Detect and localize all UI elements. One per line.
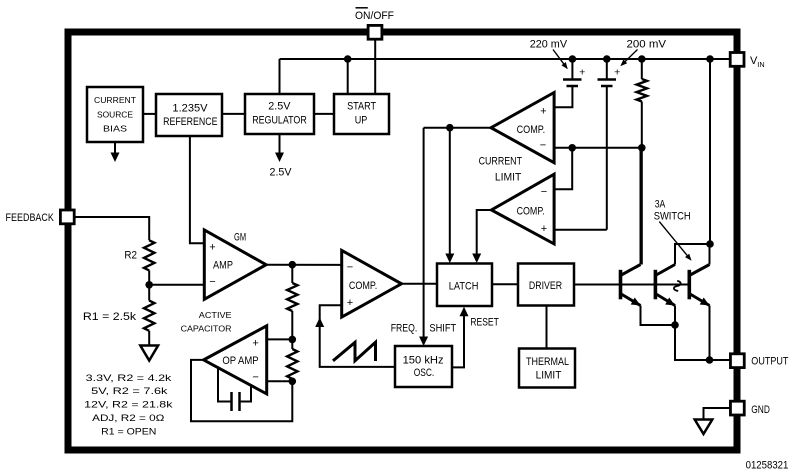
label OUTPUT [751, 355, 788, 367]
op-amp COMP current limit upper [491, 93, 554, 163]
transistor Q1 emitter [620, 293, 641, 306]
wire chain mid [291, 311, 293, 339]
wire minus to comp2 minus [554, 148, 572, 190]
wire gnd pin [704, 408, 731, 420]
block START UP [334, 94, 389, 134]
svg-text:1.235V: 1.235V [172, 103, 208, 115]
svg-text:REGULATOR: REGULATOR [252, 114, 307, 126]
label SHIFT [429, 323, 456, 335]
pointer arrow 200mV [620, 50, 637, 67]
wire node to gm- [149, 284, 204, 286]
wire reference to gm+ [190, 136, 204, 243]
label ACTIVE [199, 310, 232, 320]
svg-text:SOURCE: SOURCE [97, 109, 133, 119]
svg-text:12V, R2 = 21.8k: 12V, R2 = 21.8k [84, 399, 173, 410]
comp plus [347, 297, 353, 309]
capacitor comp left leg [218, 369, 232, 402]
note R2 values line5 [101, 426, 156, 437]
svg-text:COMP.: COMP. [517, 206, 545, 218]
svg-text:01258321: 01258321 [746, 459, 789, 471]
comp minus [347, 262, 353, 274]
op-amp COMP main [342, 250, 402, 317]
transistor Q1 collector [620, 148, 641, 276]
capacitor 220mV [563, 59, 582, 86]
svg-text:+: + [579, 67, 585, 79]
svg-text:150 kHz: 150 kHz [403, 354, 444, 366]
resistor chain lower [287, 349, 297, 379]
svg-text:START: START [347, 101, 376, 113]
transistor Q2 collector [654, 244, 710, 276]
resistor R2 [144, 240, 154, 270]
svg-text:200 mV: 200 mV [627, 39, 667, 51]
node gm output [289, 261, 297, 269]
svg-text:+: + [252, 337, 258, 349]
transistor Q2 emitter [654, 293, 675, 306]
svg-text:R2: R2 [124, 250, 137, 262]
note R2 values line1 [86, 373, 172, 384]
svg-text:+: + [540, 105, 546, 117]
wire output net [675, 325, 731, 360]
svg-text:−: − [540, 139, 546, 151]
svg-text:+: + [209, 241, 215, 253]
wire regulator top drop [279, 59, 281, 95]
svg-text:ACTIVE: ACTIVE [199, 310, 232, 320]
note R2 values line3 [84, 399, 173, 410]
svg-text:5V, R2 = 7.6k: 5V, R2 = 7.6k [91, 386, 168, 397]
comp1 minus [540, 139, 546, 151]
wire cap200 down [606, 86, 608, 230]
svg-text:ON/OFF: ON/OFF [355, 10, 394, 22]
block LATCH [437, 264, 492, 307]
label R2 [124, 250, 137, 262]
svg-text:OUTPUT: OUTPUT [751, 355, 788, 367]
svg-text:REFERENCE: REFERENCE [163, 116, 217, 128]
svg-text:SWITCH: SWITCH [654, 210, 691, 222]
svg-text:RESET: RESET [470, 317, 499, 329]
wire Q3 emitter down [709, 306, 711, 361]
wire driver to bases [574, 284, 689, 286]
wire comp2 to latch [477, 210, 492, 254]
pin OUTPUT [730, 354, 744, 368]
svg-text:220 mV: 220 mV [530, 39, 568, 51]
comp2 minus [541, 186, 547, 198]
arrow regulator 2.5V down [275, 153, 284, 163]
wire comp1 to latch [449, 128, 451, 254]
wire feedback to R2 [75, 217, 150, 240]
svg-text:LIMIT: LIMIT [536, 370, 562, 382]
wire resistor to minus line [641, 102, 643, 148]
node cap200 rail [603, 55, 611, 63]
capacitor comp right leg [240, 387, 252, 402]
svg-text:2.5V: 2.5V [270, 167, 293, 179]
block DRIVER [518, 264, 574, 306]
svg-text:3.3V, R2 = 4.2k: 3.3V, R2 = 4.2k [86, 373, 172, 384]
svg-text:R1 = 2.5k: R1 = 2.5k [83, 311, 137, 323]
label COMP main [349, 280, 377, 292]
svg-text:FEEDBACK: FEEDBACK [6, 212, 55, 224]
wire regulator-startup [314, 113, 334, 115]
opamp minus [252, 371, 258, 383]
svg-text:−: − [541, 186, 547, 198]
wire node to opamp- [267, 380, 293, 382]
svg-text:IN: IN [757, 60, 764, 69]
block 2.5V REGULATOR [245, 94, 314, 134]
wire comp1 minus line [554, 147, 642, 149]
pin GND [730, 401, 744, 415]
arrow into latch B [472, 254, 481, 264]
ground near GND pin [695, 420, 713, 435]
node opamp minus [289, 378, 297, 386]
node opamp plus [289, 336, 297, 344]
svg-text:+: + [347, 297, 353, 309]
resistor chain upper [287, 283, 297, 311]
svg-text:−: − [347, 262, 353, 274]
label COMP1 [517, 124, 546, 136]
svg-text:R1 = OPEN: R1 = OPEN [101, 426, 156, 437]
opamp plus [252, 337, 258, 349]
svg-text:3A: 3A [655, 199, 666, 211]
pin ON/OFF [368, 25, 382, 39]
label 2.5V output [270, 167, 293, 179]
label RESET [470, 317, 499, 329]
svg-text:LATCH: LATCH [449, 280, 479, 292]
svg-text:−: − [209, 276, 215, 288]
wire gm node down [291, 265, 293, 283]
transistor Q1 base bar [619, 270, 623, 300]
wire on/off drop [374, 39, 376, 95]
overline ON [356, 7, 368, 9]
svg-text:GND: GND [751, 404, 770, 416]
note R2 values line2 [91, 386, 168, 397]
svg-text:UP: UP [355, 114, 368, 126]
svg-text:ADJ, R2 = 0Ω: ADJ, R2 = 0Ω [92, 413, 164, 424]
wire gm output [266, 264, 342, 266]
label AMP [213, 260, 233, 272]
label FREQ. [391, 323, 418, 335]
node resistor rail [638, 55, 646, 63]
node collector junction [706, 240, 714, 248]
wire R1 to ground [148, 331, 150, 346]
svg-text:−: − [252, 371, 258, 383]
capacitor 200mV [598, 59, 617, 86]
label COMP2 [517, 206, 545, 218]
transistor Q2 base bar [654, 270, 658, 300]
transistor Q3 collector [688, 244, 709, 276]
wire resistor top [641, 59, 643, 79]
wire startup drop A [347, 59, 349, 95]
node cap220 rail [569, 55, 577, 63]
ground under R1 [140, 346, 158, 361]
label GND [751, 404, 770, 416]
wire collector to rail [709, 59, 711, 244]
sawtooth waveform [333, 342, 376, 361]
op-amp GM AMP [204, 230, 266, 299]
label GM [234, 231, 246, 243]
wire freq shift vertical [423, 128, 425, 337]
svg-text:DRIVER: DRIVER [529, 280, 562, 292]
op-amp COMP current limit lower [491, 174, 554, 244]
wire latch-driver [492, 283, 518, 285]
label 200 mV [627, 39, 667, 51]
label 3A [655, 199, 666, 211]
svg-text:OSC.: OSC. [414, 367, 435, 379]
block CURRENT SOURCE BIAS [87, 87, 143, 142]
label R1 = 2.5k [83, 311, 137, 323]
svg-text:BIAS: BIAS [103, 124, 128, 134]
arrow into osc [419, 337, 428, 347]
wire bias-reference [143, 113, 156, 115]
pin VIN [730, 53, 744, 67]
wire oscillator to comp+ [320, 305, 395, 367]
svg-text:LIMIT: LIMIT [495, 172, 522, 184]
svg-text:COMP.: COMP. [517, 124, 546, 136]
arrow reset up [460, 307, 469, 317]
svg-text:OP AMP: OP AMP [222, 355, 258, 367]
wire opamp feedback loop [191, 360, 292, 421]
svg-text:SHIFT: SHIFT [429, 323, 456, 335]
label LIMIT limit [495, 172, 522, 184]
node output A [706, 356, 714, 364]
transistor Q3 base bar [687, 270, 691, 300]
node comp1 output [446, 124, 454, 132]
pointer arrow 220mV [553, 50, 568, 70]
IC outer border [68, 32, 737, 450]
label 220 mV [530, 39, 568, 51]
wire comp1 output bus [424, 127, 491, 129]
gm plus [209, 241, 215, 253]
label ON/OFF [355, 10, 394, 22]
resistor sense [637, 79, 647, 102]
arrow osc feedback up [315, 318, 324, 328]
pointer arrow 3A switch [659, 222, 691, 261]
wire regulator 2.5V stub [279, 134, 281, 154]
comp1 plus [540, 105, 546, 117]
wire node to R1 [148, 285, 150, 301]
op-amp OP AMP [204, 326, 267, 394]
wire driver-thermal [546, 306, 548, 349]
wire Vin rail [280, 58, 732, 60]
capacitor comp plates [232, 392, 240, 411]
arrow into latch A [445, 254, 454, 264]
wire minus line to T1 collector [641, 148, 643, 265]
transistor Q3 emitter [688, 293, 709, 306]
block 1.235V REFERENCE [156, 94, 222, 136]
base resistor squiggle [674, 281, 681, 291]
node minus line B [638, 144, 646, 152]
wire bias ground stub [114, 142, 116, 154]
node minus line A [568, 144, 576, 152]
wire reference-regulator [222, 113, 245, 115]
block 150kHz OSC [395, 346, 452, 387]
svg-text:COMP.: COMP. [349, 280, 377, 292]
svg-text:+: + [614, 67, 620, 79]
wire Q2 emitter down [674, 306, 676, 326]
arrow bias down [111, 153, 120, 163]
node emitter join [671, 321, 679, 329]
label FEEDBACK [6, 212, 55, 224]
svg-text:FREQ.: FREQ. [391, 323, 418, 335]
label SWITCH [654, 210, 691, 222]
wire chain mid2 [291, 339, 293, 349]
svg-text:CURRENT: CURRENT [479, 156, 523, 168]
pin FEEDBACK [60, 210, 74, 224]
node startup rail junction [344, 55, 352, 63]
block THERMAL LIMIT [519, 349, 575, 388]
wire Q1 emitter down [641, 306, 676, 326]
wire osc to reset [452, 315, 464, 367]
svg-text:GM: GM [234, 231, 246, 243]
node feedback divider [145, 281, 153, 289]
svg-text:+: + [541, 223, 547, 235]
svg-text:CURRENT: CURRENT [94, 95, 136, 105]
label CAPACITOR [181, 323, 232, 333]
wire comp2 plus input [554, 229, 607, 231]
node rail switch [706, 55, 714, 63]
label VIN [750, 55, 765, 69]
gm minus [209, 276, 215, 288]
cap220 plus sign [579, 67, 585, 79]
label CURRENT limit [479, 156, 523, 168]
svg-text:2.5V: 2.5V [268, 101, 291, 113]
cap200 plus sign [614, 67, 620, 79]
wire node to opamp+ [267, 338, 293, 340]
resistor R1 [144, 301, 154, 331]
wire comp1 plus input [554, 86, 572, 107]
comp2 plus [541, 223, 547, 235]
label OP AMP [222, 355, 258, 367]
wire comp output [402, 283, 438, 285]
svg-text:AMP: AMP [213, 260, 233, 272]
wire R2 to node [148, 270, 150, 284]
label part number [746, 459, 789, 471]
svg-text:CAPACITOR: CAPACITOR [181, 323, 232, 333]
note R2 values line4 [92, 413, 164, 424]
svg-text:THERMAL: THERMAL [526, 356, 569, 368]
